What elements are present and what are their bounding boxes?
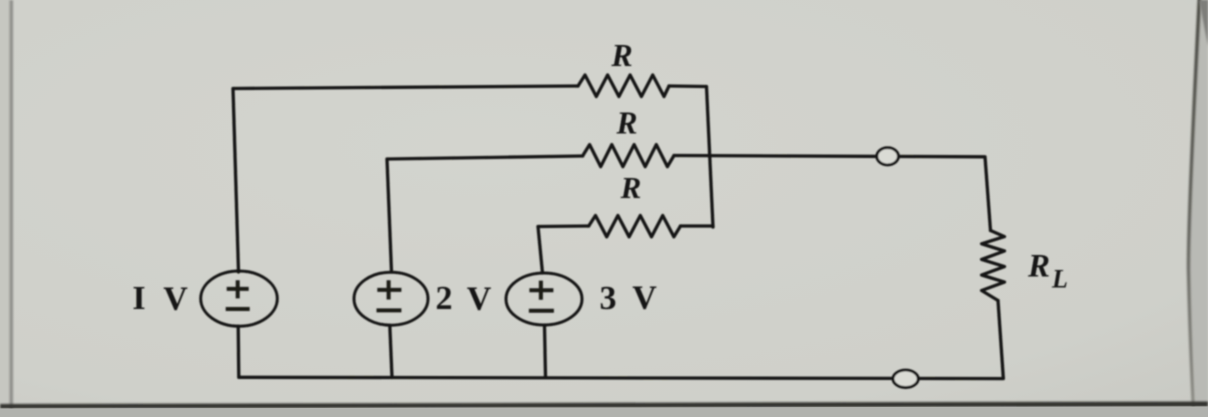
voltage source V1 ellipse <box>201 271 278 326</box>
svg-text:2: 2 <box>436 280 453 317</box>
V2 plus sign <box>377 280 401 299</box>
node B (output terminal) <box>893 370 918 387</box>
V3 plus sign <box>529 281 553 300</box>
wire from V1 bottom to bottom bus <box>237 326 241 377</box>
svg-text:L: L <box>1051 265 1068 294</box>
svg-text:V: V <box>163 281 188 318</box>
V2 minus sign <box>377 308 402 312</box>
wire from V2 bottom to bottom bus <box>390 325 392 377</box>
wire bottom bus <box>239 377 1003 378</box>
voltage source V3 ellipse <box>506 273 582 325</box>
svg-text:R: R <box>620 170 642 205</box>
svg-text:R: R <box>615 106 637 141</box>
wire from R3 right to bus <box>681 224 714 227</box>
svg-text:3: 3 <box>600 280 617 317</box>
svg-text:I: I <box>132 280 145 317</box>
V1 minus sign <box>226 307 250 311</box>
svg-text:V: V <box>467 281 492 318</box>
voltage source V2 ellipse <box>354 272 428 325</box>
wire from R2 right through node A to RL top <box>674 156 991 231</box>
V1 plus sign <box>227 280 249 298</box>
wire from RL bottom to bottom bus <box>998 301 1003 378</box>
wire from V3 bottom to bottom bus <box>545 325 546 378</box>
V3 minus sign <box>529 309 554 313</box>
resistor RL <box>982 231 1005 301</box>
wire from V1 top to resistor R1 left <box>233 86 578 272</box>
resistor R3 <box>589 216 681 237</box>
svg-text:R: R <box>1027 249 1050 285</box>
node A (output terminal) <box>877 148 899 165</box>
wire from V3 top to resistor R3 left <box>538 226 589 273</box>
svg-text:V: V <box>632 280 657 317</box>
wire from R1 right down bus to node <box>669 86 713 227</box>
wire from V2 top to resistor R2 left <box>387 156 583 272</box>
resistor R1 <box>578 75 669 97</box>
svg-text:R: R <box>610 37 632 73</box>
resistor R2 <box>583 145 674 167</box>
